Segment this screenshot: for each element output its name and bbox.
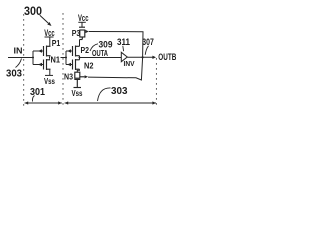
svg-text:P3: P3	[72, 29, 81, 38]
svg-text:P2: P2	[81, 46, 90, 55]
svg-text:INV: INV	[124, 59, 135, 68]
boundary dashed line middle	[62, 13, 64, 108]
wire node A bus	[65, 51, 67, 65]
boundary dashed line right	[155, 58, 157, 108]
node input junction	[32, 57, 34, 59]
transistor N3	[74, 72, 85, 87]
svg-text:Vss: Vss	[72, 89, 83, 98]
wire P2/N2 drains OUTA node	[79, 56, 81, 60]
wire OUT to pad	[127, 56, 152, 58]
transistor P2	[73, 46, 80, 57]
node A junction	[49, 57, 51, 59]
svg-text:309: 309	[99, 39, 113, 49]
wire N2 source to N3 drain	[77, 69, 79, 72]
wire IN input	[8, 57, 33, 59]
inverter INV triangle	[121, 52, 127, 61]
svg-text:N2: N2	[84, 61, 94, 71]
wire OUTA	[80, 57, 122, 59]
svg-text:303: 303	[6, 69, 22, 80]
wire P2 gate lead	[66, 50, 73, 52]
svg-text:N1: N1	[51, 56, 61, 65]
transistor P1	[44, 46, 51, 57]
dimension arrow 301 span	[25, 102, 62, 104]
transistor N1	[44, 59, 51, 70]
dimension arrow 303 span	[65, 102, 156, 104]
transistor P3	[79, 27, 85, 39]
wire N1 gate lead	[33, 64, 44, 66]
svg-text:311: 311	[117, 37, 130, 47]
svg-text:IN: IN	[14, 46, 23, 55]
svg-text:303: 303	[111, 86, 128, 97]
svg-text:N3: N3	[64, 72, 73, 81]
Vcc supply P1	[45, 37, 54, 46]
boundary dashed line 303 left	[23, 14, 25, 108]
svg-text:OUTB: OUTB	[158, 52, 176, 62]
svg-text:Vcc: Vcc	[78, 13, 89, 24]
svg-text:OUTA: OUTA	[92, 49, 108, 58]
Vcc supply P3	[78, 22, 86, 27]
wire P1 drain	[49, 56, 51, 60]
svg-text:300: 300	[24, 6, 42, 18]
wire N2 gate lead	[66, 64, 73, 66]
label N1	[50, 57, 61, 63]
svg-text:P1: P1	[52, 38, 61, 48]
wire feedback top P3 gate	[88, 32, 143, 81]
svg-text:301: 301	[30, 87, 45, 98]
wire P1 gate lead	[33, 50, 44, 52]
wire node A	[50, 57, 66, 59]
svg-text:Vss: Vss	[44, 77, 55, 86]
transistor N2	[73, 59, 80, 70]
Vss supply N1	[45, 69, 53, 75]
wire input gate bus	[32, 51, 34, 65]
wire P2 source to P3 drain	[79, 40, 81, 47]
